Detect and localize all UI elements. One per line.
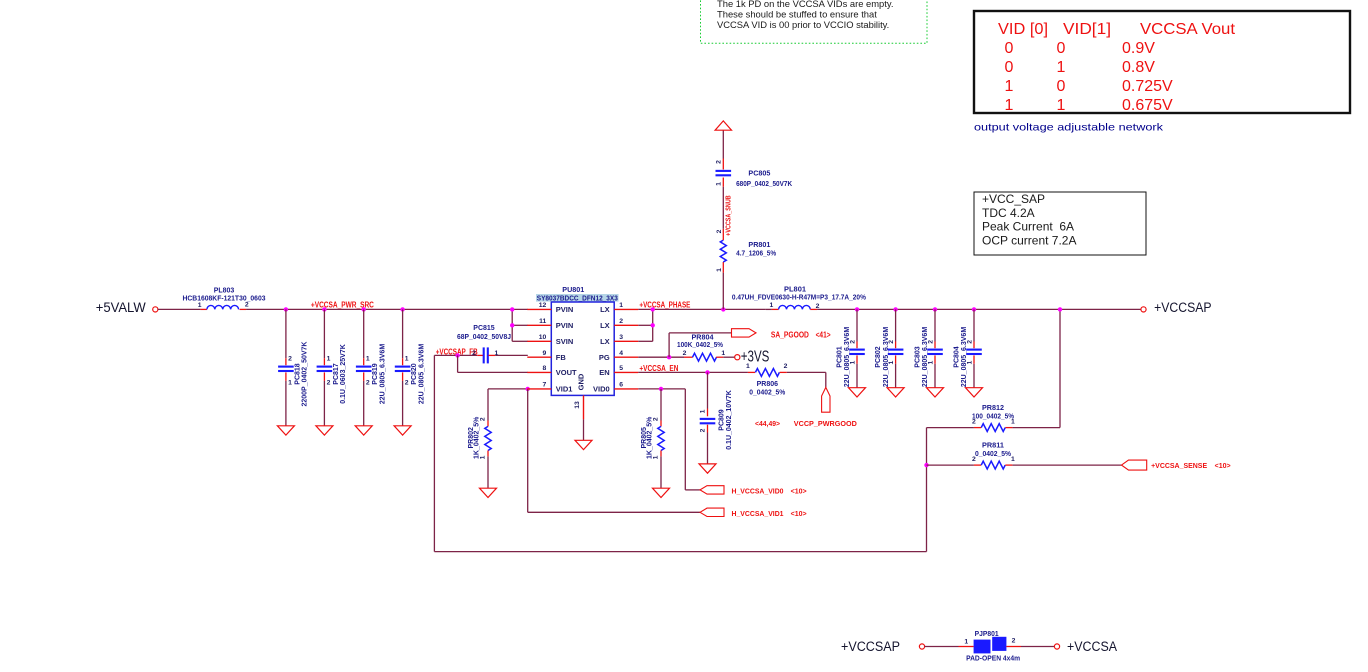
wire rail PL803 to IC — [246, 308, 528, 310]
svg-text:<10>: <10> — [791, 486, 808, 495]
inductor PL801 — [766, 308, 772, 310]
svg-text:0.9V: 0.9V — [1122, 40, 1155, 57]
svg-text:2: 2 — [653, 417, 660, 421]
svg-text:<10>: <10> — [791, 509, 808, 518]
svg-text:+VCCSA_PHASE: +VCCSA_PHASE — [639, 301, 691, 310]
pin 9 FB — [527, 356, 551, 358]
svg-text:SY8037BDCC_DFN12_3X3: SY8037BDCC_DFN12_3X3 — [537, 296, 618, 303]
svg-text:1: 1 — [495, 350, 499, 357]
svg-text:13: 13 — [574, 401, 581, 409]
port H_VCCSA_VID1 — [700, 508, 724, 516]
ground IC — [575, 440, 592, 449]
svg-text:VID[1]: VID[1] — [1063, 21, 1111, 38]
junction rail PC819 — [362, 307, 366, 311]
svg-text:1K_0402_5%: 1K_0402_5% — [473, 416, 480, 459]
wire PR812 riser — [1059, 309, 1061, 427]
junction snub — [721, 307, 725, 311]
wire to jumper — [925, 646, 959, 648]
svg-text:0_0402_5%: 0_0402_5% — [975, 451, 1012, 458]
svg-text:8: 8 — [543, 365, 547, 372]
svg-text:PU801: PU801 — [562, 287, 584, 294]
svg-text:1: 1 — [1005, 97, 1014, 114]
terminal +3VS — [735, 355, 740, 360]
wire VID1 — [488, 388, 528, 390]
capacitor PC818 — [285, 309, 287, 358]
svg-text:EN: EN — [599, 368, 609, 377]
svg-text:LX: LX — [600, 337, 610, 346]
info box +VCC_SAP — [974, 192, 1146, 255]
svg-text:2: 2 — [716, 229, 723, 233]
svg-text:+3VS: +3VS — [741, 349, 770, 366]
svg-text:2: 2 — [784, 363, 788, 370]
wire +5VALW to PL803 — [158, 308, 201, 310]
svg-text:1: 1 — [619, 302, 623, 309]
svg-text:1: 1 — [405, 356, 409, 363]
capacitor PC802 — [895, 309, 897, 341]
ground PC819 — [355, 426, 372, 435]
svg-text:PL801: PL801 — [784, 286, 806, 293]
wire snub riser — [722, 273, 724, 310]
svg-text:+VCCSA: +VCCSA — [1067, 639, 1117, 654]
capacitor PC803 — [934, 309, 936, 341]
terminal bottom right — [1054, 644, 1059, 649]
wire PR804 to terminal — [723, 356, 735, 358]
svg-text:PR812: PR812 — [982, 405, 1004, 412]
op-amp U1 highlight — [536, 294, 619, 302]
pin 13 GND — [583, 395, 585, 419]
svg-text:SVIN: SVIN — [556, 337, 574, 346]
svg-text:22U_0805_6.3V6M: 22U_0805_6.3V6M — [883, 327, 890, 387]
svg-text:PVIN: PVIN — [556, 305, 574, 314]
svg-text:7: 7 — [543, 382, 547, 389]
port VCCP_PWRGOOD — [822, 387, 830, 412]
pin 12 PVIN — [527, 308, 551, 310]
wire PR811 to port — [1012, 464, 1121, 466]
svg-text:<10>: <10> — [1215, 461, 1232, 470]
wire EN — [638, 371, 748, 373]
svg-text:VCCSA Vout: VCCSA Vout — [1140, 21, 1236, 38]
junction rail-PVIN — [510, 307, 514, 311]
pin 6 VID0 — [614, 388, 638, 390]
wire VID1 drop — [527, 389, 529, 512]
svg-text:VID1: VID1 — [556, 385, 573, 394]
svg-text:PC817: PC817 — [333, 363, 340, 385]
wire LX rail — [638, 308, 766, 310]
svg-text:OCP current 7.2A: OCP current 7.2A — [982, 233, 1077, 247]
ground PC804 — [966, 388, 983, 397]
resistor PR805 — [660, 389, 662, 421]
junction VID1 — [526, 387, 530, 391]
capacitor PC815 — [477, 354, 483, 356]
pin 3 LX — [614, 340, 638, 342]
svg-text:TDC 4.2A: TDC 4.2A — [982, 206, 1035, 220]
port H_VCCSA_VID0 — [700, 486, 724, 494]
svg-text:SA_PGOOD: SA_PGOOD — [771, 330, 809, 339]
junction rail PC801 — [855, 307, 859, 311]
svg-text:4: 4 — [619, 350, 623, 357]
svg-text:1K_0402_5%: 1K_0402_5% — [646, 416, 653, 459]
junction rail PC802 — [893, 307, 897, 311]
svg-text:PAD-OPEN 4x4m: PAD-OPEN 4x4m — [966, 656, 1020, 663]
svg-text:PC820: PC820 — [411, 363, 418, 385]
svg-text:0.675V: 0.675V — [1122, 97, 1173, 114]
wire FB junction to cap — [458, 354, 478, 356]
wire jumper to terminal — [1006, 646, 1021, 648]
svg-text:1: 1 — [288, 379, 292, 386]
svg-text:FB: FB — [556, 353, 567, 362]
capacitor PC819 — [363, 309, 365, 358]
svg-text:0.47UH_FDVE0630-H-R47M=P3_17.7: 0.47UH_FDVE0630-H-R47M=P3_17.7A_20% — [732, 295, 867, 302]
svg-text:1: 1 — [1005, 78, 1014, 95]
wire VID0 — [638, 388, 685, 390]
svg-text:2: 2 — [327, 379, 331, 386]
junction EN — [705, 370, 709, 374]
svg-text:LX: LX — [600, 305, 610, 314]
resistor PR811 — [927, 464, 974, 466]
svg-text:+VCCSAP: +VCCSAP — [1154, 300, 1212, 315]
wire pin13 to ground — [583, 419, 585, 440]
junction rail PC818 — [284, 307, 288, 311]
junction VID0 — [659, 387, 663, 391]
svg-text:PC819: PC819 — [372, 363, 379, 385]
ground PC803 — [927, 388, 944, 397]
VID table text — [998, 21, 1236, 114]
wire output rail — [817, 308, 1141, 310]
wire LX2 LX3 drop — [652, 309, 654, 341]
pin 1 LX — [614, 308, 638, 310]
junction rail PC820 — [400, 307, 404, 311]
svg-text:9: 9 — [543, 350, 547, 357]
svg-text:2: 2 — [716, 160, 723, 164]
svg-text:2: 2 — [288, 356, 292, 363]
svg-text:1: 1 — [716, 268, 723, 272]
pin 2 LX — [614, 324, 638, 326]
ground PC817 — [316, 426, 333, 435]
svg-text:These should be stuffed to ens: These should be stuffed to ensure that — [717, 8, 877, 19]
wire sense riser — [926, 428, 928, 552]
svg-text:1: 1 — [964, 638, 968, 645]
junction LX rail — [651, 307, 655, 311]
wire FB long left down — [433, 355, 435, 551]
svg-text:0.1U_0603_25V7K: 0.1U_0603_25V7K — [340, 344, 347, 404]
svg-text:<44,49>: <44,49> — [755, 419, 781, 428]
pin 8 VOUT — [527, 371, 551, 373]
svg-text:+VCCSA_EN: +VCCSA_EN — [639, 364, 678, 373]
svg-text:VCCP_PWRGOOD: VCCP_PWRGOOD — [794, 419, 858, 428]
svg-text:1: 1 — [700, 409, 707, 413]
svg-text:+VCCSA_SENSE: +VCCSA_SENSE — [1151, 461, 1207, 470]
svg-text:0.8V: 0.8V — [1122, 59, 1155, 76]
capacitor PC801 — [856, 309, 858, 341]
junction FB — [455, 353, 459, 357]
svg-text:2: 2 — [700, 428, 707, 432]
svg-text:Peak Current 6A: Peak Current 6A — [982, 220, 1074, 234]
svg-text:0.725V: 0.725V — [1122, 78, 1173, 95]
ic PU801 body — [551, 302, 614, 395]
junction rail PR812 — [1058, 307, 1062, 311]
ground PR802 — [480, 488, 497, 497]
svg-text:2: 2 — [480, 417, 487, 421]
junction sense — [924, 463, 928, 467]
svg-text:PR801: PR801 — [748, 242, 770, 249]
resistor PR802 — [487, 389, 489, 421]
svg-text:+VCCSAP: +VCCSAP — [841, 639, 900, 654]
svg-text:PJP801: PJP801 — [975, 631, 999, 638]
svg-text:PC802: PC802 — [875, 346, 882, 368]
port +VCCSA_SENSE — [1122, 460, 1147, 470]
svg-text:PC815: PC815 — [473, 325, 495, 332]
junction rail PC817 — [322, 307, 326, 311]
svg-text:11: 11 — [539, 318, 546, 325]
svg-text:22U_0805_6.3V6M: 22U_0805_6.3V6M — [922, 327, 929, 387]
terminal +VCCSAP — [1141, 307, 1146, 312]
svg-text:+VCC_SAP: +VCC_SAP — [982, 192, 1045, 206]
svg-text:1: 1 — [480, 455, 487, 459]
svg-text:PC803: PC803 — [915, 346, 922, 368]
VID table box — [974, 11, 1350, 113]
svg-text:2: 2 — [366, 379, 370, 386]
wire snub mid — [722, 187, 724, 229]
port SA_PGOOD — [732, 329, 757, 337]
svg-text:2200P_0402_50V7K: 2200P_0402_50V7K — [302, 341, 309, 406]
svg-text:PL803: PL803 — [214, 288, 235, 295]
svg-text:100_0402_5%: 100_0402_5% — [972, 413, 1015, 420]
wire FB to VOUT — [457, 355, 459, 372]
svg-text:PC804: PC804 — [954, 346, 961, 368]
svg-text:10: 10 — [539, 334, 547, 341]
ground PC818 — [277, 426, 294, 435]
svg-text:PC818: PC818 — [294, 363, 301, 385]
capacitor PC804 — [973, 309, 975, 341]
junction PVIN11 — [510, 323, 514, 327]
jumper PJP801 — [974, 640, 991, 654]
pin 7 VID1 — [527, 388, 551, 390]
capacitor PC805 — [722, 178, 724, 187]
svg-text:0_0402_5%: 0_0402_5% — [749, 389, 786, 396]
inductor PL803 — [200, 308, 207, 310]
ground PC802 — [887, 388, 904, 397]
svg-text:0.1U_0402_10V7K: 0.1U_0402_10V7K — [726, 390, 733, 450]
svg-text:0: 0 — [1057, 78, 1066, 95]
power arrow top — [715, 121, 731, 130]
resistor PR806 — [748, 371, 755, 373]
wire bottom long — [434, 551, 926, 553]
ground PC809 — [699, 464, 716, 473]
wire PG up branch — [668, 333, 670, 357]
svg-text:0: 0 — [1005, 40, 1014, 57]
wire PVIN drop — [511, 309, 513, 341]
svg-text:22U_0805_6.3V6M: 22U_0805_6.3V6M — [961, 327, 968, 387]
svg-text:4.7_1206_5%: 4.7_1206_5% — [736, 251, 777, 258]
pin 11 PVIN — [527, 324, 551, 326]
capacitor PC820 — [402, 309, 404, 358]
svg-text:VOUT: VOUT — [556, 368, 577, 377]
svg-text:1: 1 — [327, 356, 331, 363]
svg-text:<41>: <41> — [816, 330, 831, 339]
svg-text:2: 2 — [683, 350, 687, 357]
terminal bottom left — [919, 644, 924, 649]
svg-text:12: 12 — [539, 302, 547, 309]
svg-text:1: 1 — [770, 302, 774, 309]
svg-text:0: 0 — [1005, 59, 1014, 76]
svg-text:VID0: VID0 — [593, 385, 610, 394]
note text — [717, 0, 893, 30]
junction rail PC803 — [933, 307, 937, 311]
terminal +5VALW — [153, 307, 158, 312]
pin 5 EN — [614, 371, 638, 373]
svg-text:2: 2 — [619, 318, 623, 325]
svg-text:22U_0805_6.3V6M: 22U_0805_6.3V6M — [418, 344, 425, 404]
svg-text:+5VALW: +5VALW — [96, 300, 146, 315]
svg-text:2: 2 — [1012, 638, 1016, 645]
svg-text:1: 1 — [1057, 97, 1066, 114]
svg-text:1: 1 — [198, 302, 202, 309]
svg-text:1: 1 — [1057, 59, 1066, 76]
wire VID0 drop — [684, 389, 686, 490]
svg-text:22U_0805_6.3V6M: 22U_0805_6.3V6M — [844, 327, 851, 387]
svg-text:GND: GND — [577, 373, 586, 390]
wire EN to port — [787, 371, 826, 373]
svg-text:1: 1 — [653, 455, 660, 459]
info box text — [982, 192, 1077, 247]
svg-text:2: 2 — [472, 350, 476, 357]
capacitor PC817 — [323, 309, 325, 358]
svg-text:VID [0]: VID [0] — [998, 21, 1048, 38]
wire FB left — [434, 354, 457, 356]
svg-text:PC809: PC809 — [719, 409, 726, 431]
svg-text:PR811: PR811 — [982, 442, 1004, 449]
resistor PR801 — [722, 262, 724, 273]
svg-text:PR804: PR804 — [692, 334, 714, 341]
svg-text:H_VCCSA_VID1: H_VCCSA_VID1 — [732, 509, 784, 518]
svg-text:1: 1 — [366, 356, 370, 363]
svg-text:5: 5 — [619, 365, 623, 372]
ground PR805 — [653, 488, 670, 497]
pin 4 PG — [614, 356, 638, 358]
svg-text:PC805: PC805 — [748, 171, 770, 178]
pin 10 SVIN — [527, 340, 551, 342]
resistor PR812 — [1012, 427, 1060, 429]
svg-text:HCB1608KF-121T30_0603: HCB1608KF-121T30_0603 — [183, 295, 266, 302]
svg-text:PR806: PR806 — [757, 381, 779, 388]
svg-text:PG: PG — [599, 353, 610, 362]
green note box — [701, 0, 928, 43]
svg-text:6: 6 — [619, 382, 623, 389]
svg-text:100K_0402_5%: 100K_0402_5% — [677, 342, 724, 349]
svg-text:3: 3 — [619, 334, 623, 341]
svg-text:2: 2 — [405, 379, 409, 386]
junction rail PC804 — [972, 307, 976, 311]
junction PG — [667, 355, 671, 359]
wire PG — [638, 356, 684, 358]
svg-text:68P_0402_50V8J: 68P_0402_50V8J — [457, 334, 511, 341]
svg-text:H_VCCSA_VID0: H_VCCSA_VID0 — [732, 486, 784, 495]
svg-text:+VCCSA_SNUB: +VCCSA_SNUB — [724, 195, 733, 236]
ground PC801 — [849, 388, 866, 397]
resistor PR804 — [684, 356, 693, 358]
svg-text:PVIN: PVIN — [556, 321, 574, 330]
svg-text:VCCSA VID is 00 prior to VCCIO: VCCSA VID is 00 prior to VCCIO stability… — [717, 19, 889, 30]
svg-text:output voltage adjustable netw: output voltage adjustable network — [974, 122, 1164, 134]
svg-text:2: 2 — [245, 301, 249, 308]
svg-text:1: 1 — [716, 182, 723, 186]
svg-text:1: 1 — [1011, 456, 1015, 463]
svg-text:0: 0 — [1057, 40, 1066, 57]
capacitor PC809 — [707, 372, 709, 408]
junction LX2 — [651, 323, 655, 327]
wire snub top — [722, 130, 724, 158]
svg-text:LX: LX — [600, 321, 610, 330]
svg-text:680P_0402_50V7K: 680P_0402_50V7K — [736, 181, 792, 188]
svg-text:1: 1 — [721, 350, 725, 357]
svg-text:PC801: PC801 — [837, 346, 844, 368]
ground PC820 — [394, 426, 411, 435]
svg-text:22U_0805_6.3V6M: 22U_0805_6.3V6M — [380, 344, 387, 404]
